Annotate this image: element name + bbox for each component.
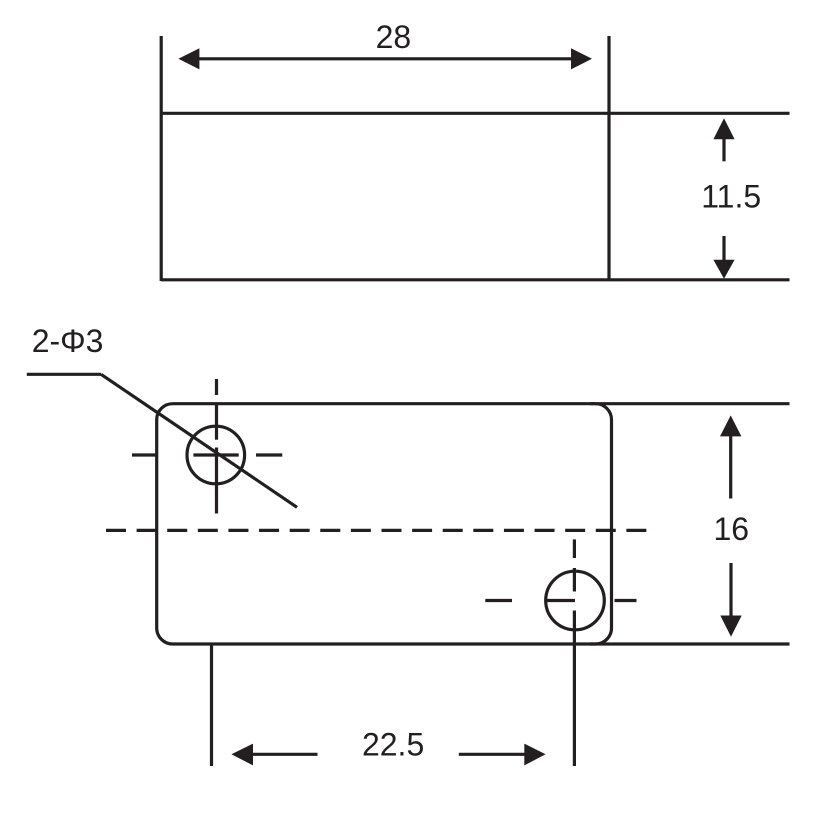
dimension 11.5: lower arrow shaft <box>722 236 725 260</box>
hole H2 horizontal centerline right tick <box>615 599 637 602</box>
hole H1 vertical centerline lower segment <box>215 448 218 514</box>
hole H1 horizontal centerline middle segment <box>193 453 238 456</box>
part horizontal dashed centerline <box>106 529 646 532</box>
dimension 22.5: left arrow shaft <box>252 753 318 756</box>
top view: top outline line <box>161 112 790 115</box>
leader line diagonal segment for 2-Φ3 <box>101 374 297 507</box>
dimension 28: shaft <box>198 57 572 60</box>
dimension 16: lower arrow shaft <box>729 563 732 616</box>
top view: left extension line <box>160 36 163 281</box>
bottom view: rounded-rectangle body outline <box>157 404 612 644</box>
dimension 22.5: left arrowhead <box>231 744 253 766</box>
hole H1 vertical centerline upper dash <box>215 379 218 395</box>
bottom view: bottom edge extension line <box>590 642 790 645</box>
left lead pin line <box>210 645 213 766</box>
hole H2 vertical centerline middle dash <box>573 568 576 592</box>
dimension 11.5: upper arrowhead <box>713 118 734 139</box>
dimension 16: upper arrowhead <box>720 415 741 436</box>
hole H1 horizontal centerline left tick <box>132 453 157 456</box>
hole H1 vertical centerline middle segment <box>215 404 218 440</box>
svg-text:16: 16 <box>714 511 750 547</box>
svg-text:11.5: 11.5 <box>701 179 761 215</box>
svg-text:22.5: 22.5 <box>362 727 424 763</box>
dimension 28: right arrowhead <box>571 48 592 69</box>
top view: bottom outline line <box>161 278 790 281</box>
leader line horizontal segment for 2-Φ3 <box>27 373 101 376</box>
dimension 22.5: right arrowhead <box>524 744 545 766</box>
dimension 22.5: right arrow shaft <box>459 753 525 756</box>
top view: right extension line <box>607 36 610 281</box>
dimension 11.5: lower arrowhead <box>713 260 734 279</box>
hole H2 vertical centerline + right lead pin line <box>573 611 576 767</box>
hole H2 horizontal centerline left tick <box>485 599 512 602</box>
svg-text:2-Φ3: 2-Φ3 <box>32 323 104 359</box>
hole H1 circle <box>187 426 245 484</box>
hole H1 horizontal centerline right tick <box>256 453 282 456</box>
hole H2 circle <box>546 571 605 630</box>
hole H2 horizontal centerline middle segment <box>546 599 576 602</box>
dimension 16: upper arrow shaft <box>729 436 732 499</box>
dimension 11.5: upper arrow shaft <box>722 139 725 161</box>
hole H2 vertical centerline upper dash <box>573 539 576 558</box>
dimension 16: lower arrowhead <box>720 616 741 637</box>
dimension 28: left arrowhead <box>178 48 199 69</box>
svg-text:28: 28 <box>376 19 412 55</box>
bottom view: top edge extension line <box>590 402 790 405</box>
